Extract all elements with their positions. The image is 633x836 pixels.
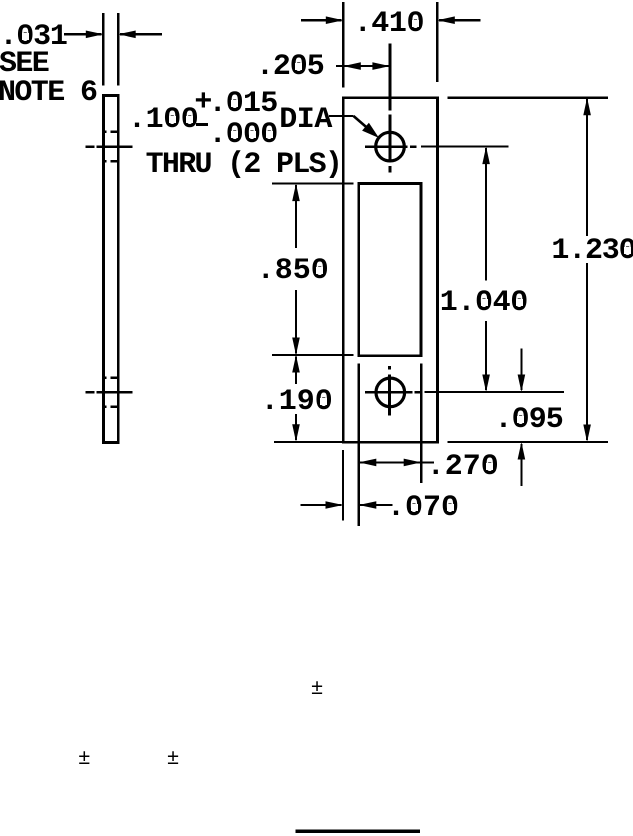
callout tolerance .015 <box>209 89 278 119</box>
dimension 1.230 arrows <box>586 99 588 236</box>
side view upper hole centerline <box>86 145 95 148</box>
dimension .095 top arrow <box>520 349 522 391</box>
dimension .270 extension lines <box>358 363 360 526</box>
note text SEE <box>0 49 48 79</box>
side view thickness extension line right <box>117 13 119 86</box>
dim text 1.040 <box>440 288 528 318</box>
dimension .410 right arrow <box>439 19 481 21</box>
dimension 1.230 top extension line <box>448 97 608 99</box>
tolerance symbol 2 <box>78 749 91 770</box>
dimension .270 line and arrows <box>359 461 434 463</box>
upper hole <box>376 132 405 161</box>
lower hole <box>376 378 405 407</box>
dimension .190 arrows <box>295 357 297 385</box>
front view plate outline <box>343 98 437 443</box>
callout tolerance minus <box>196 123 209 127</box>
dimension 1.230 bottom extension line <box>448 441 608 443</box>
dim text .205 <box>256 52 324 82</box>
dim text .031 <box>0 22 67 52</box>
dimension .031 left arrow <box>64 33 102 35</box>
hole callout leader <box>329 115 354 117</box>
side view lower hole centerline <box>86 391 95 394</box>
dimension 1.040 top extension line <box>421 146 509 148</box>
callout tolerance plus <box>194 88 212 118</box>
dim text .095 <box>495 405 563 435</box>
dimension .190 bottom extension line <box>274 441 344 443</box>
dimension .070 left extension line <box>342 450 344 521</box>
note text NOTE 6 <box>0 78 96 108</box>
dim text .070 <box>387 493 459 523</box>
upper hole vertical centerline <box>389 44 392 111</box>
tolerance symbol 3 <box>167 749 180 770</box>
dim text .850 <box>257 256 329 286</box>
callout text THRU (2 PLS) <box>146 150 342 180</box>
callout text DIA <box>279 105 332 135</box>
dimension .095 bottom arrow <box>520 444 522 486</box>
front view slot <box>359 184 421 356</box>
dimension 1.040 bottom extension line <box>425 391 564 393</box>
callout text .100 <box>128 105 198 135</box>
side view thickness extension line left <box>102 13 104 86</box>
side view lower hole hidden edges <box>104 377 107 380</box>
tolerance symbol 1 <box>311 679 324 700</box>
dimension .410 left arrow <box>301 19 342 21</box>
dimension 1.040 arrows <box>485 148 487 281</box>
dimension .850 arrows <box>295 185 297 248</box>
upper hole horizontal centerline <box>365 145 408 148</box>
side view plate outline <box>103 95 118 442</box>
dim text 1.230 <box>551 236 633 266</box>
dimension .850 extension lines <box>272 183 354 185</box>
side view upper hole hidden edges <box>104 131 107 134</box>
dim text .410 <box>354 9 424 39</box>
lower hole horizontal centerline <box>365 391 412 394</box>
dim text .270 <box>427 452 499 482</box>
dimension .070 arrows <box>301 504 342 506</box>
zero glyph fill patches <box>22 33 29 40</box>
dimension .205 line and arrows <box>336 65 390 67</box>
bottom border line <box>296 829 420 833</box>
dimension .410 extension lines <box>342 2 344 88</box>
lower hole vertical centerline <box>388 366 391 369</box>
dim text .190 <box>261 387 333 417</box>
dimension .031 right arrow <box>120 33 162 35</box>
callout tolerance .000 <box>209 120 278 150</box>
